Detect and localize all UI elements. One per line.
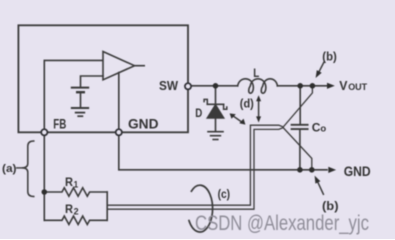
svg-text:D: D xyxy=(195,106,202,120)
svg-text:GND: GND xyxy=(344,164,371,179)
svg-text:(b): (b) xyxy=(322,51,337,63)
svg-text:R: R xyxy=(65,202,73,216)
svg-text:(a): (a) xyxy=(2,163,17,175)
svg-text:R: R xyxy=(65,175,73,189)
svg-text:FB: FB xyxy=(53,117,66,132)
svg-text:1: 1 xyxy=(74,180,79,190)
svg-text:o: o xyxy=(320,124,326,135)
svg-text:C: C xyxy=(312,121,321,135)
svg-text:(d): (d) xyxy=(240,99,254,111)
svg-text:(c): (c) xyxy=(218,187,231,201)
svg-text:2: 2 xyxy=(74,207,79,217)
svg-text:CSDN @Alexander_yjc: CSDN @Alexander_yjc xyxy=(195,211,369,235)
svg-text:V: V xyxy=(339,78,348,93)
svg-text:L: L xyxy=(253,68,259,80)
svg-text:OUT: OUT xyxy=(348,82,367,93)
svg-text:SW: SW xyxy=(159,79,178,93)
svg-text:GND: GND xyxy=(128,117,159,132)
